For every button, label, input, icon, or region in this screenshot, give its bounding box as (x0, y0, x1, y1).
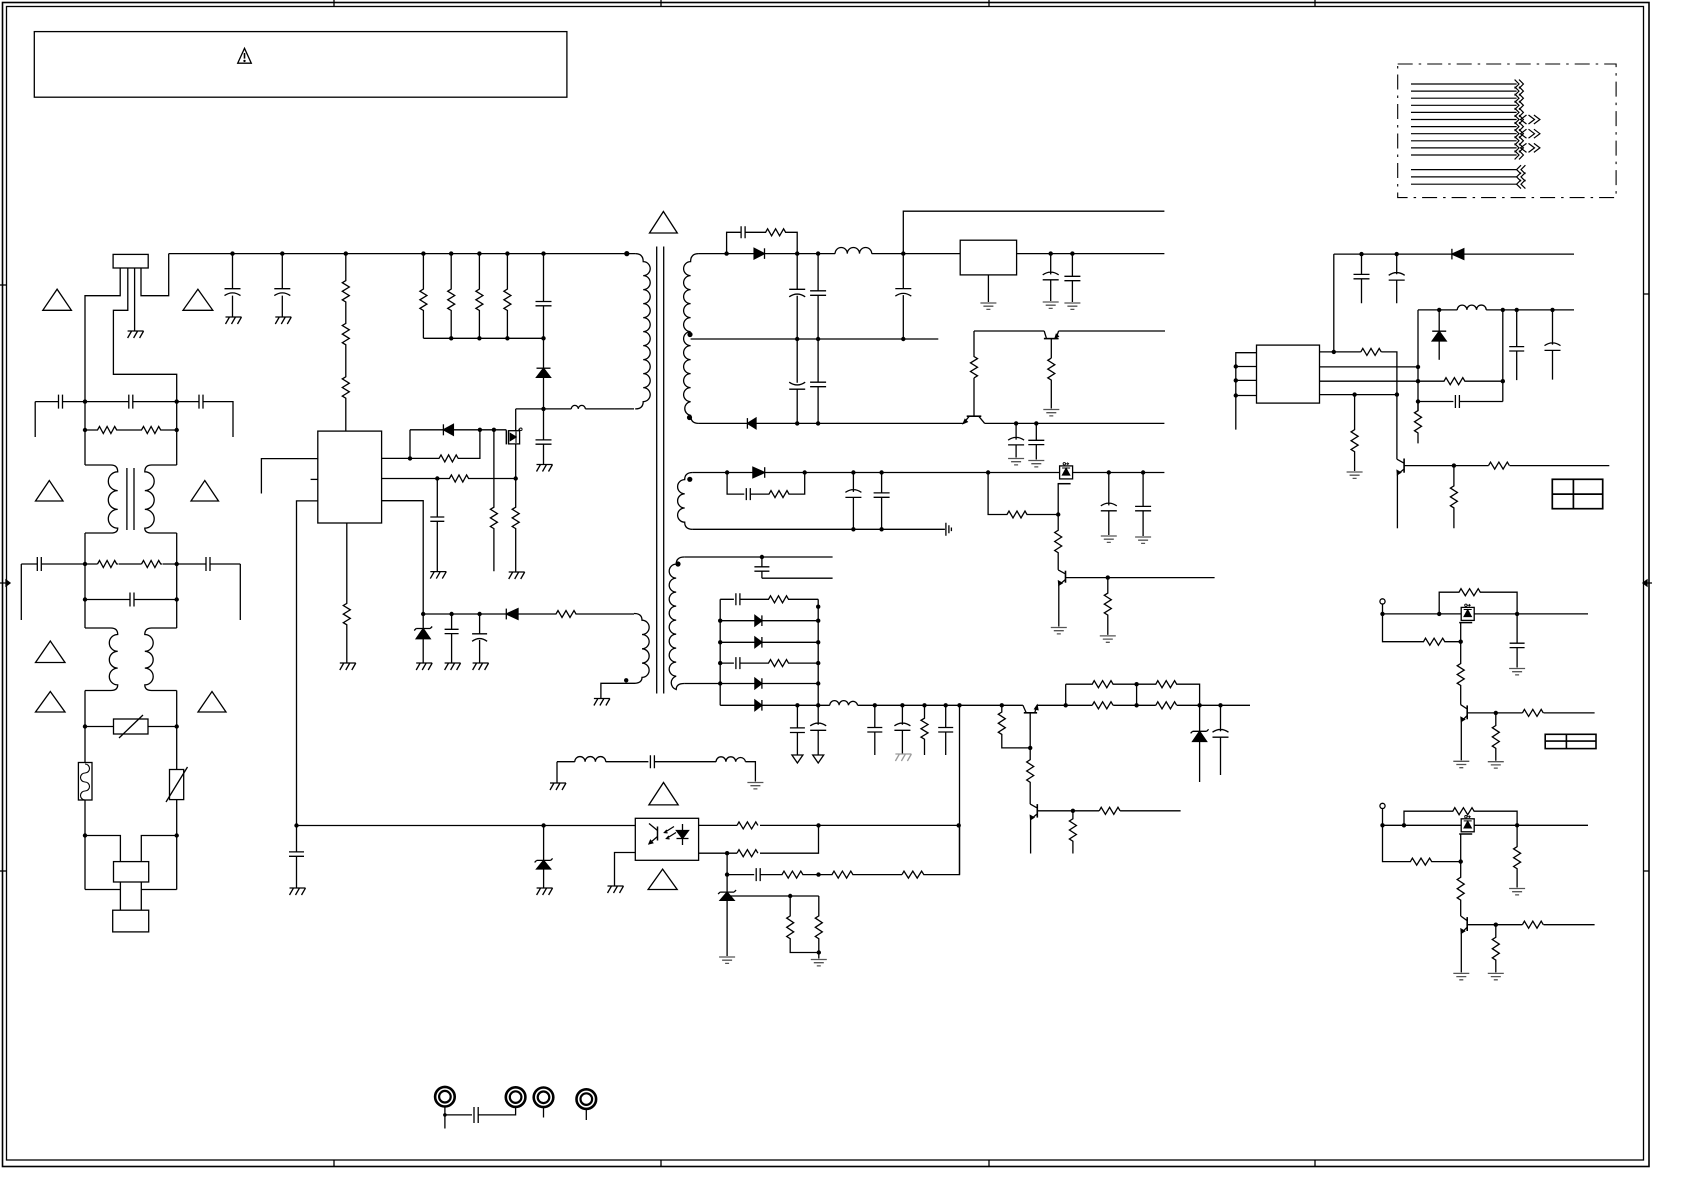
node U3 left p2 (1234, 364, 1238, 368)
zener vcc ZD (414, 614, 432, 631)
resistor LS1 gate lower (1457, 642, 1464, 705)
inductor buck L (1457, 305, 1486, 310)
node U3 left p3 (1234, 378, 1238, 382)
node buck out fb (1501, 308, 1505, 312)
right filter vertical lower (176, 691, 178, 770)
optocoupler PC1 arrows (665, 827, 675, 833)
capacitor U2 C2 (1064, 254, 1080, 302)
resistor opto cathode R (737, 850, 758, 857)
wire U3 vin riser (1333, 254, 1335, 352)
warning triangle above opto (649, 783, 678, 805)
capacitor lv C4 polarized (894, 705, 910, 754)
resistor LS2 gate R (1383, 825, 1461, 865)
ground iec Q51 b (1488, 973, 1504, 979)
hole H4 (577, 1089, 597, 1109)
wire vcc row (423, 613, 506, 615)
resistor divider bot R2 (1156, 702, 1177, 709)
warning triangle C right (198, 692, 226, 713)
connector wire 3 (1411, 97, 1517, 99)
node vcc c2 (477, 612, 481, 616)
wire hole1 stub (444, 1106, 446, 1128)
ground chassis pin3 (128, 331, 144, 338)
left filter vertical lower (84, 691, 86, 763)
capacitor lv C5 (938, 705, 953, 755)
regulator U2 (960, 240, 1016, 275)
wire lv sense drop (959, 705, 961, 874)
node sec1 tap dot (687, 332, 692, 337)
wire U1 pin left1 (261, 459, 317, 494)
SECONDARY 3 SECTION (684, 555, 832, 711)
node fb zener (541, 823, 545, 827)
resistor RX2a (98, 561, 119, 568)
warning triangle icon (238, 48, 252, 63)
node Q30 base join (1028, 746, 1032, 750)
wire LS1 rail (1383, 613, 1589, 615)
capacitor LS1 out C (1510, 614, 1525, 668)
transistor Q21 (1065, 571, 1067, 583)
node sec2 c1 (851, 470, 855, 474)
capacitor ret C polarized (1008, 423, 1024, 457)
capacitor buck C2 polarized (1545, 310, 1561, 380)
capacitor sec2 C3 polarized (1101, 473, 1117, 536)
ground iec retC1 (1008, 459, 1024, 465)
capacitor hole link C (445, 1107, 516, 1123)
choke LF1 core (127, 468, 134, 530)
node bus-Rsn2 (449, 251, 453, 255)
ground iec Q21 base (1100, 636, 1116, 642)
wire opto emitter out (615, 853, 636, 887)
transformer secondary1 winding (684, 254, 699, 424)
diode vcc D (505, 609, 507, 620)
right filter vertical upper (176, 402, 178, 465)
wire bridge left drop (556, 762, 558, 783)
terminal LS2 (1380, 803, 1385, 808)
border zone tick right 2 (1644, 870, 1650, 872)
node rail-Rsn4 (505, 336, 509, 340)
capacitor CX1b (129, 395, 133, 409)
transformer T1 core (657, 247, 664, 694)
node U3 vin (1332, 350, 1336, 354)
node sec1 bot c1 (795, 421, 799, 425)
border fold arrow left (0, 580, 10, 586)
LOW VOLTAGE OUTPUT RAIL SECTION (790, 681, 1250, 875)
ground chassis fb zener (537, 888, 553, 895)
node divider top mid (1134, 682, 1138, 686)
wire cathode to row C (726, 853, 728, 892)
connector wire 2 (1411, 90, 1517, 92)
ground chassis aux (594, 699, 610, 706)
node rail-Csn (541, 336, 545, 340)
node sec2 bot c2 (879, 527, 883, 531)
inductor bridge L1 (575, 757, 606, 762)
LOAD SWITCH 2 SECTION (1380, 803, 1595, 979)
SECONDARY 1 OUTPUT SECTION (699, 211, 1165, 467)
ground triangle lv C1 (792, 755, 803, 763)
ground iec Q11 (1043, 410, 1059, 416)
node lv r1 (922, 703, 926, 707)
resistor Q41 base pulldown (1492, 713, 1499, 761)
node Q41 base R (1494, 711, 1498, 715)
mosfet Q1 (505, 430, 507, 444)
wire Q41 base row (1467, 712, 1594, 714)
wire LS1 input (1382, 604, 1384, 614)
node sec1 c2 top (816, 251, 820, 255)
resistor RX2b (142, 561, 163, 568)
warning triangle A2 (183, 289, 213, 310)
diode matrix left rail (719, 599, 721, 705)
left vertical below fuse (84, 800, 86, 890)
node sec3 top dot (675, 561, 680, 566)
wire bridge mid (606, 755, 716, 768)
capacitor CX2a (37, 557, 41, 571)
node row3 left (83, 597, 87, 601)
capacitor CS filter (430, 479, 444, 572)
transistor Q30 on lv rail (1024, 712, 1037, 714)
ground chassis vcc c1 (445, 663, 461, 670)
shunt reg TL431 style zener (718, 890, 736, 894)
ground chassis vcc zener (416, 663, 432, 670)
border zone tick top 3 (988, 0, 990, 7)
node sec1 bot c2 (816, 421, 820, 425)
wire fb right riser (1502, 310, 1504, 402)
node lv c2 (816, 703, 820, 707)
terminal LS1 (1380, 599, 1385, 604)
wire U3 sw pin (1320, 366, 1419, 368)
wire Q41 emitter (1460, 721, 1462, 760)
resistor lv R1 (921, 705, 928, 755)
X cap row2 right stub (239, 564, 241, 620)
resistor opto anode R (737, 822, 758, 829)
ground iec Q21 (1051, 628, 1067, 634)
capacitor stby C2 polarized (1389, 254, 1405, 303)
mosfet Q20 gate bar (1058, 483, 1071, 485)
wire top rail riser (903, 211, 1164, 253)
node divider bot mid (1134, 703, 1138, 707)
wire Q3 emitter stub (1396, 475, 1398, 529)
resistor LS1 gate R (1383, 614, 1461, 645)
inlet row wire right (141, 836, 176, 862)
node U2 out c2 (1070, 251, 1074, 255)
node LS1 in (1380, 612, 1384, 616)
node row C left (725, 872, 729, 876)
connector wire 7 (1411, 126, 1517, 128)
ic U3 standby regulator (1257, 345, 1320, 403)
resistor snubber 4 (504, 254, 511, 339)
varistor RV1 (114, 719, 149, 734)
hole H2 (506, 1087, 526, 1107)
wire Q3 base row (1404, 465, 1609, 467)
capacitor stby C1 (1354, 254, 1370, 303)
wire Q51 emitter (1460, 933, 1462, 972)
transformer aux winding (634, 614, 649, 684)
wire primary fb row (297, 825, 636, 827)
node LS1 fb right (1515, 612, 1519, 616)
diode gate D (442, 424, 444, 435)
wire Q21 emitter (1058, 585, 1060, 626)
node sec2 gate (1056, 512, 1060, 516)
inlet pins between boxes (120, 882, 141, 910)
node rail-Rsn2 (449, 336, 453, 340)
node Q21 base R (1106, 575, 1110, 579)
capacitor sec1 C1 upper polarized (789, 254, 805, 339)
ground iec Q41 b (1488, 762, 1504, 768)
resistor sec2 gate R (988, 473, 1058, 519)
wire hole3 stub (543, 1107, 545, 1118)
resistor LS2 out bleed (1514, 825, 1521, 887)
connector wire 14 return (1411, 183, 1517, 185)
node opto cathode (725, 851, 729, 855)
node cap row left (1416, 399, 1420, 403)
capacitor lv C2 polarized (810, 705, 826, 754)
resistor divider top R2 (1137, 681, 1200, 706)
wire pin3 (134, 268, 136, 331)
node bus-Rsn3 (477, 251, 481, 255)
node gate-loop (478, 428, 482, 432)
wire divider riser (1065, 684, 1067, 705)
node row1-left (83, 399, 87, 403)
inlet side jumper left (85, 889, 120, 891)
capacitor sec2 C1 polarized (845, 473, 861, 530)
wire U1 pin left NC (311, 478, 318, 480)
resistor snubber 2 (448, 254, 455, 339)
resistor Q21 base pulldown (1104, 578, 1111, 635)
node vcc c1 (449, 612, 453, 616)
connector wire 1 (1411, 83, 1517, 85)
border zone tick bottom 2 (660, 1160, 662, 1167)
snubber RC sec2 (727, 473, 805, 501)
wire Q1 drain (515, 409, 517, 431)
warning triangle B left (36, 481, 64, 502)
border zone tick bottom 4 (1314, 1160, 1316, 1167)
choke LF1 left winding (85, 465, 118, 533)
capacitor CX3 mid row (85, 593, 177, 607)
resistor ref R1 (787, 896, 819, 953)
row C resistor 2 (819, 871, 903, 878)
ground chassis vcc c2 (473, 663, 489, 670)
ic U1 pwm controller (318, 431, 382, 523)
transformer primary winding (635, 254, 650, 409)
node sec2 top dot (687, 477, 692, 482)
node sec1 c1 top (795, 251, 799, 255)
OPTO FEEDBACK SECTION (289, 783, 961, 966)
capacitor CX1a (59, 395, 63, 409)
capacitor sec2 C4 (1135, 473, 1151, 537)
node CS source (514, 476, 518, 480)
node sec2 bot c1 (851, 527, 855, 531)
capacitor lv C6 polarized (1213, 705, 1229, 775)
right filter vertical mid (176, 533, 178, 628)
capacitor fb C (1418, 395, 1503, 408)
ground chassis bridge left (550, 783, 566, 790)
capacitor ret C2 (1028, 423, 1044, 459)
resistor RX1b (130, 427, 177, 434)
node matrix row4 L (718, 661, 722, 665)
wire sec1 tap (691, 338, 939, 340)
warning triangle exclamation (244, 53, 246, 59)
resistor Q3 base pulldown (1450, 466, 1457, 529)
hole H3 (534, 1088, 554, 1108)
wire current sense pin (382, 475, 516, 482)
left filter vertical mid (84, 533, 86, 628)
inlet row wire left (85, 836, 120, 862)
capacitor lv C1 (790, 705, 805, 754)
node Q31 base R (1071, 809, 1075, 813)
node R row right (175, 428, 179, 432)
capacitor sec1 C1 lower polarized (789, 339, 805, 423)
ground chassis Y2 (275, 317, 291, 324)
node rail-Rsn3 (477, 336, 481, 340)
wire drain node to bead (544, 408, 572, 410)
LOAD SWITCH 1 SECTION (1380, 589, 1596, 768)
node lv c3 (873, 703, 877, 707)
node row3 right (175, 597, 179, 601)
node Q3 base (1452, 463, 1456, 467)
wire rail to diode (543, 338, 545, 368)
connector wire 13 return (1411, 176, 1517, 178)
capacitor CX2c (206, 557, 210, 571)
warning triangle C left upper (36, 641, 66, 663)
capacitor Y1 (225, 254, 241, 317)
wire Q30 base (1029, 713, 1031, 748)
matrix row6 output diode (720, 700, 830, 711)
mosfet Q50 load fet (1461, 819, 1474, 832)
node row2 left (83, 562, 87, 566)
node bus-Rsn1 (421, 251, 425, 255)
fuse F1 (78, 763, 92, 801)
node lv sense (957, 703, 961, 707)
border zone tick left 2 (0, 870, 7, 872)
choke LF2 left winding (85, 628, 118, 691)
node U3 gnd R (1352, 392, 1356, 396)
node lv c5 (944, 703, 948, 707)
border zone tick bottom 1 (333, 1160, 335, 1167)
node opto anode mid (816, 823, 820, 827)
node sec1 bottom dot (687, 415, 692, 420)
snubber RC sec1 (727, 226, 798, 253)
wire Q1 source (515, 444, 517, 479)
node sec1 c2 mid (816, 337, 820, 341)
row C resistor 3 (902, 825, 960, 878)
inlet upper box (114, 862, 149, 882)
wire Q50 gate (1460, 834, 1462, 862)
node LS2 fb left (1402, 823, 1406, 827)
resistor Q41 base series (1522, 709, 1543, 716)
X cap row2 wire (21, 563, 240, 565)
wire pin4 (141, 254, 169, 296)
connector wire 5 (1411, 111, 1517, 113)
wire pin1 (85, 268, 120, 402)
ground iec bridge right (747, 783, 763, 789)
mosfet Q50 gate bar (1459, 833, 1472, 835)
node sec2 c2 (879, 470, 883, 474)
transformer secondary2 winding (678, 473, 693, 530)
resistor ref R2 (815, 896, 822, 959)
diode sec2 D (753, 467, 765, 478)
wire gate top branch (410, 429, 506, 431)
node buck out c2 (1550, 308, 1554, 312)
node CS pin (435, 476, 439, 480)
node U2 out c1 (1049, 251, 1053, 255)
node ref row r1 (788, 894, 792, 898)
matrix row1 snubber (720, 593, 818, 605)
connector CN ac input box (113, 254, 148, 268)
transistor Q51 (1466, 917, 1468, 931)
BRIDGE FILTER ROW (550, 755, 763, 790)
resistor U3 gnd R (1351, 395, 1358, 471)
wire U3 left bus (1236, 353, 1257, 430)
wire Q31 base row (1037, 810, 1180, 812)
wire Q10 base (973, 378, 975, 416)
node lv rbase top (1000, 703, 1004, 707)
wire U3 gnd pin (1320, 394, 1397, 396)
main bus wire (169, 253, 636, 255)
resistor LS1 feedback (1439, 589, 1517, 614)
inlet side jumper right (141, 889, 176, 891)
diode sec1 D (754, 248, 764, 259)
capacitor sec2 C2 (874, 473, 890, 530)
transistor Q31 (1036, 804, 1038, 818)
node bus-C2 (280, 251, 284, 255)
resistor divider bot R1 (1092, 702, 1113, 709)
wire drain node to mosfet (516, 408, 544, 410)
mosfet Q40 gate bar (1459, 622, 1472, 624)
matrix row4 snubber (720, 657, 818, 669)
resistor sense shunt (512, 479, 519, 573)
ground bars sec2 return (946, 523, 952, 536)
wire Q40 gate (1460, 623, 1462, 642)
left filter vertical upper (84, 402, 86, 465)
wire sec2 top rail (693, 472, 1165, 474)
wire bridge right drop (745, 762, 755, 782)
snubber rail wire (423, 337, 543, 339)
resistor snubber 3 (476, 254, 483, 339)
ground chassis CS cap (430, 572, 446, 579)
node row C mid (816, 872, 820, 876)
node hole1 tee (443, 1113, 447, 1117)
node bus-Rsn4 (505, 251, 509, 255)
wire U1 pin left3 (297, 501, 318, 826)
MOUNTING HOLES (435, 1087, 596, 1129)
resistor Q30 lower (1027, 748, 1034, 804)
connector wire 11 (1411, 154, 1517, 156)
mosfet Q20 load fet (1060, 466, 1073, 479)
wire divider mid link (1136, 684, 1138, 705)
node LS1 gate (1459, 640, 1463, 644)
node fb div (1416, 379, 1420, 383)
wire pin2 (113, 268, 176, 402)
ground chassis drain cap (537, 465, 553, 472)
ground iec U2 (980, 303, 996, 309)
node matrix row4 R (816, 661, 820, 665)
ground chassis grey lv C4 (895, 754, 911, 761)
node sec2 snub right (803, 470, 807, 474)
resistor RX1a (85, 427, 130, 434)
ground iec Q51 e (1453, 973, 1469, 979)
node U3 gnd cross (1395, 392, 1399, 396)
wire opto anode row (699, 824, 959, 826)
wire U2 gnd (987, 275, 989, 302)
node sense row A (958, 824, 960, 826)
warning triangle above T1 (650, 212, 678, 234)
thermistor NTC (170, 770, 184, 800)
inductor bead L (571, 405, 585, 408)
resistor snubber 1 (420, 254, 427, 339)
node drain (541, 407, 545, 411)
node matrix row2 L (718, 619, 722, 623)
warning triangle below opto (648, 869, 677, 889)
resistor LS2 gate lower (1457, 862, 1464, 916)
wire standby input rail (1334, 253, 1574, 255)
